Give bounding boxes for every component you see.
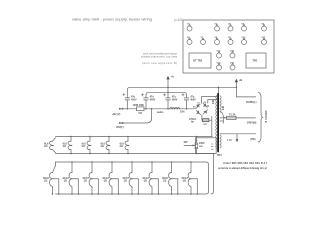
svg-text:240: 240	[222, 105, 225, 110]
tube socket V2	[215, 24, 220, 31]
transformer secondary winding A	[220, 96, 221, 112]
wire W2	[120, 108, 196, 110]
heater V2b row2	[63, 161, 79, 195]
svg-text:GC: GC	[120, 145, 124, 148]
svg-text:(also see appendix B): (also see appendix B)	[142, 61, 177, 65]
tube socket V11	[262, 37, 267, 44]
svg-text:(2): (2)	[144, 180, 147, 183]
power transformer block PT1	[246, 53, 266, 68]
svg-text:GC: GC	[82, 145, 86, 148]
heater V2a row1	[63, 136, 72, 155]
svg-text:1 L5: 1 L5	[227, 140, 232, 142]
tube socket V14	[217, 62, 222, 70]
svg-text:chassis placement, top view: chassis placement, top view	[141, 55, 177, 59]
svg-text:V12: V12	[217, 51, 222, 53]
transformer TR1 core	[217, 94, 219, 152]
voltage selector block SEL1	[196, 138, 217, 154]
svg-text:+B: +B	[239, 78, 243, 82]
wire mains L	[236, 87, 255, 97]
note text	[218, 162, 267, 170]
tube socket V7	[201, 37, 206, 44]
svg-text:240V(N): 240V(N)	[247, 121, 256, 124]
svg-text:GC: GC	[63, 145, 67, 148]
heater row1 top rail	[56, 136, 213, 138]
heater V8b row2	[182, 161, 198, 195]
svg-text:(2): (2)	[124, 180, 127, 183]
svg-text:NTC: NTC	[203, 124, 208, 126]
inductor L1	[170, 107, 180, 109]
tube socket V4	[242, 23, 247, 31]
capacitor C2	[141, 94, 155, 109]
output transformer block OT1	[189, 53, 211, 68]
thermistor NTC1	[189, 118, 209, 126]
svg-text:+B2 (V): +B2 (V)	[112, 113, 121, 116]
svg-text:V15: V15	[230, 63, 235, 65]
tube socket V9	[228, 37, 233, 44]
svg-text:(2): (2)	[84, 180, 87, 183]
svg-text:set: set	[199, 145, 203, 148]
tube socket V13	[230, 51, 235, 58]
svg-text:+A: +A	[170, 75, 174, 79]
wire bridge out	[201, 115, 203, 120]
svg-text:12VAC: 12VAC	[189, 118, 197, 121]
tube socket V1	[187, 24, 192, 31]
tube socket V15	[230, 63, 235, 70]
svg-text:D1: D1	[198, 103, 200, 105]
tube socket V8	[215, 37, 220, 44]
wire selector to row2 rail	[211, 153, 213, 194]
wire bridge AC top	[202, 97, 217, 104]
svg-text:D4: D4	[207, 105, 210, 108]
svg-text:(PE): (PE)	[251, 138, 256, 141]
heater V3a row1	[82, 136, 91, 155]
svg-text:(2): (2)	[44, 180, 47, 183]
heater V6b row2	[143, 161, 159, 195]
svg-text:GC: GC	[101, 145, 105, 148]
transformer secondary winding B	[220, 135, 221, 148]
tube socket V3	[228, 24, 233, 31]
wire HT riser	[120, 109, 152, 123]
svg-text:TR1: TR1	[253, 59, 258, 63]
terminal B+ out	[119, 108, 121, 110]
svg-text:(2): (2)	[163, 180, 166, 183]
svg-text:(2): (2)	[183, 180, 186, 183]
humdinger pot P1	[184, 136, 198, 155]
svg-text:4R7: 4R7	[184, 141, 189, 144]
svg-text:V11: V11	[262, 37, 267, 39]
svg-text:GC: GC	[44, 145, 48, 148]
svg-text:HT2(F): HT2(F)	[116, 126, 124, 129]
svg-text:10H: 10H	[180, 111, 185, 114]
node +A arrow	[167, 79, 169, 87]
svg-text:htr: htr	[191, 121, 194, 124]
chassis caption text	[141, 52, 177, 66]
svg-text:OT TR2: OT TR2	[193, 59, 203, 63]
heater V4b row2	[103, 161, 119, 195]
capacitor C3	[163, 92, 177, 109]
heater V5a row1	[120, 136, 129, 155]
svg-text:D3: D3	[193, 106, 195, 108]
tube socket V5	[262, 24, 267, 31]
junction	[167, 87, 169, 89]
svg-text:450V: 450V	[131, 98, 137, 101]
terminal HT ct	[119, 122, 121, 124]
tube socket V6	[187, 37, 192, 44]
wire bridge AC top2	[208, 100, 217, 104]
brace mains group	[258, 92, 263, 142]
node +B arrow	[235, 82, 237, 88]
resistor R1	[133, 104, 145, 115]
svg-text:450V: 450V	[190, 98, 196, 101]
capacitor C1	[123, 90, 137, 109]
svg-text:V10: V10	[242, 37, 247, 39]
transformer pin stub	[220, 119, 224, 124]
svg-text:D2: D2	[204, 102, 206, 104]
wire cap distribution	[146, 92, 187, 95]
heater V4a row1	[101, 136, 110, 155]
heater V7b row2	[162, 161, 178, 195]
svg-text:V13: V13	[230, 51, 235, 53]
junction	[218, 87, 220, 89]
heater V1a row1	[44, 138, 55, 153]
bridge rectifier D1-D4	[193, 102, 210, 115]
svg-text:valve amp mkII - power supply,: valve amp mkII - power supply, heater wi…	[72, 17, 152, 22]
svg-text:serial de si alarept diffque f: serial de si alarept diffque followig dr…	[218, 167, 267, 170]
svg-text:0V/PH(L): 0V/PH(L)	[246, 101, 257, 104]
svg-text:450V: 450V	[150, 98, 156, 101]
tube socket V12	[217, 51, 222, 58]
heater V1b row2	[43, 162, 59, 195]
svg-text:150R 10W: 150R 10W	[133, 104, 145, 107]
junction	[127, 108, 129, 110]
heater V5b row2	[123, 161, 139, 195]
transformer primary winding arcs	[216, 96, 217, 149]
fuse F1	[220, 114, 256, 120]
svg-text:240: 240	[212, 99, 215, 104]
svg-text:(2): (2)	[104, 180, 107, 183]
wire core-top stub	[218, 87, 220, 93]
heater row2 top rail	[56, 162, 209, 194]
svg-text:5%: 5%	[139, 112, 143, 115]
svg-text:230VAC in: 230VAC in	[264, 111, 268, 124]
title text	[72, 17, 183, 22]
capacitor C4	[182, 94, 196, 109]
chassis layout box	[183, 20, 274, 73]
svg-text:p.1/2: p.1/2	[175, 18, 183, 22]
heater V3b row2	[83, 161, 99, 195]
svg-text:V14: V14	[217, 62, 222, 65]
tube socket V10	[242, 37, 247, 44]
heater row1 bottom rail	[56, 153, 214, 155]
wire B+ rail	[127, 87, 236, 90]
svg-text:audio: audio	[157, 111, 164, 114]
svg-text:(2): (2)	[64, 180, 67, 183]
svg-text:TR1: TR1	[217, 154, 222, 157]
wire mains PE	[220, 133, 256, 135]
svg-text:F1 2A: F1 2A	[229, 114, 236, 117]
wire NTC to heater rail	[209, 116, 212, 136]
svg-text:Under 6B5 6B5 6B1 6B1 6B1 B-2: Under 6B5 6B5 6B1 6B1 6B1 B-2 f	[223, 162, 267, 165]
svg-text:450V: 450V	[172, 98, 178, 101]
chassis earth arrow	[236, 134, 238, 140]
